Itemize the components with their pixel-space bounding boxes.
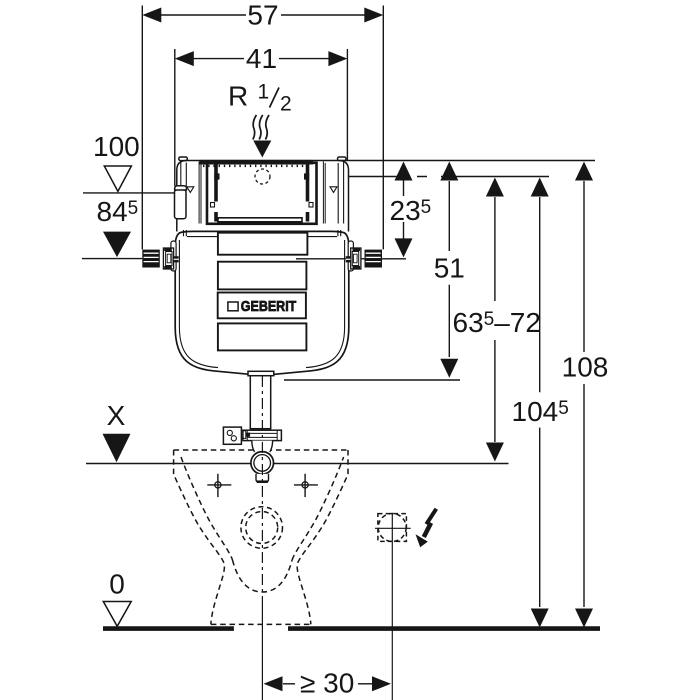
- dimension 108 top arrow: [575, 162, 593, 181]
- dimension >=30 arrow right: [372, 676, 391, 691]
- tank side plate right: [348, 241, 353, 271]
- dimension >=30 arrow left: [264, 676, 283, 691]
- flush elbow inner circle: [254, 455, 271, 472]
- electrical box dashed square: [378, 514, 407, 542]
- filling valve housing: [175, 190, 187, 219]
- water supply wavy hose symbol: [253, 115, 257, 140]
- electrical box cross line: [375, 527, 411, 529]
- frame tab top-left: [214, 173, 219, 179]
- wc pan inner outline left: [181, 457, 233, 560]
- tank panel 1: [218, 233, 308, 255]
- dimension 57 arrow left: [142, 8, 161, 23]
- right bracket tab top: [353, 248, 361, 251]
- level 100 leader line: [83, 192, 179, 194]
- tank panel 4: [218, 323, 307, 350]
- svg-text:41: 41: [246, 43, 277, 74]
- water level mark right: [330, 187, 337, 193]
- svg-text:GEBERIT: GEBERIT: [241, 299, 297, 315]
- dimension 104.5 top arrow: [531, 178, 549, 197]
- frame tab top-right: [304, 173, 309, 179]
- dimension 63.5-72 top arrow: [486, 178, 504, 197]
- wc pan outer outline right: [297, 450, 348, 624]
- water supply arrow: [253, 141, 271, 158]
- dimension >=30 line left: [283, 683, 295, 685]
- cistern top right screw nub: [338, 157, 347, 161]
- pan centre line: [261, 376, 263, 600]
- fixing cross right: [294, 474, 318, 497]
- level X filled triangle: [103, 434, 131, 463]
- wc pan top edge: [174, 449, 348, 451]
- tank side plate left: [171, 241, 176, 271]
- dimension 108 line: [583, 181, 585, 607]
- svg-text:0: 0: [109, 569, 125, 600]
- water connection reference line: [270, 176, 549, 178]
- dimension 57 extension line right: [382, 6, 384, 250]
- fixing cross left: [207, 474, 231, 497]
- svg-text:2: 2: [280, 93, 292, 116]
- svg-text:1: 1: [258, 81, 270, 104]
- svg-text:≥ 30: ≥ 30: [300, 668, 354, 699]
- svg-text:100: 100: [93, 131, 140, 162]
- left bracket plate: [163, 248, 173, 269]
- mounting box screws: [227, 430, 232, 435]
- dimension 63.5-72 bottom arrow: [486, 443, 504, 462]
- svg-text:108: 108: [562, 352, 609, 383]
- svg-text:X: X: [107, 400, 126, 431]
- level 84.5 filled triangle: [103, 232, 131, 258]
- flush pipe clamp: [243, 430, 282, 440]
- right bracket plate inner: [352, 252, 358, 266]
- flush pipe collar: [248, 371, 274, 375]
- flush bend cover bar: [218, 218, 302, 222]
- dimension 51 top arrow: [440, 162, 458, 181]
- right bracket knob slots: [366, 253, 381, 261]
- electrical supply centre line: [391, 513, 393, 700]
- wc pan inner bowl curve: [233, 560, 293, 592]
- bracket leader line right: [296, 258, 406, 260]
- flush pipe leader line: [284, 379, 460, 381]
- frame inner notch right: [309, 203, 313, 208]
- filling valve cap: [175, 186, 187, 190]
- dimension >=30 line right: [358, 683, 372, 685]
- dimension 41 line: [193, 58, 330, 60]
- tank panel 3: [218, 293, 306, 319]
- tank body outline: [175, 231, 349, 374]
- elbow neck: [252, 441, 273, 453]
- floor line: [103, 626, 600, 631]
- tank inner top lines: [187, 236, 337, 238]
- frame inner bar right: [306, 164, 310, 222]
- dimension 57 line: [160, 14, 366, 16]
- tank inner wall line: [179, 240, 344, 368]
- dimension 63.5-72 line: [494, 197, 496, 442]
- dimension 57 arrow right: [364, 8, 383, 23]
- left bracket tab bottom: [164, 266, 172, 269]
- water supply connection dashed circle: [255, 169, 270, 184]
- right bracket plate: [351, 248, 361, 269]
- level 84.5 leader line: [82, 258, 142, 260]
- flush pipe body: [250, 375, 270, 429]
- left bracket plate inner: [166, 252, 172, 266]
- dimension 51 line: [448, 181, 450, 357]
- dimension 108 bottom arrow: [575, 609, 593, 628]
- svg-text:635–72: 635–72: [453, 307, 541, 338]
- wc pan outer outline left: [174, 450, 225, 624]
- right bracket bolt: [346, 256, 351, 262]
- frame inner notch left: [211, 203, 215, 208]
- lightning bolt: [426, 509, 436, 524]
- right bracket knob: [365, 250, 383, 268]
- frame support lines right: [323, 162, 325, 224]
- wc pan outlet outer dashed circle: [241, 507, 283, 549]
- cistern top box outer: [177, 161, 349, 232]
- top reference line (top of cistern): [340, 160, 595, 162]
- protection box top bar: [200, 160, 314, 165]
- svg-text:51: 51: [434, 253, 465, 284]
- dimension 51 bottom arrow: [440, 359, 458, 378]
- protection box frame: [207, 163, 317, 224]
- water level mark left: [187, 187, 194, 193]
- dimension 23.5 line: [403, 180, 405, 240]
- level 100 open triangle: [104, 166, 131, 191]
- left bracket knob slots: [144, 253, 159, 261]
- cistern wall double lines left: [199, 162, 201, 224]
- svg-text:R: R: [228, 81, 248, 112]
- dimension 41 extension line left: [174, 49, 176, 186]
- left bracket bolt: [174, 256, 179, 262]
- right bracket tab bottom: [353, 266, 361, 269]
- cistern top left screw nub: [179, 157, 188, 161]
- left bracket tab top: [164, 248, 172, 251]
- level 0 open triangle: [103, 602, 131, 627]
- tank panel 2: [218, 262, 307, 290]
- left bracket knob: [142, 250, 160, 268]
- filling valve inlet tube: [181, 163, 187, 187]
- geberit logo square: [228, 302, 238, 311]
- dimension 41 arrow left: [175, 51, 194, 66]
- dimension 23.5 top arrow: [395, 162, 413, 181]
- cistern wall double lines right: [338, 162, 343, 224]
- elbow foot base: [257, 480, 268, 483]
- wc pan outlet inner dashed circle: [246, 512, 278, 544]
- flush pipe clamp inner lines: [247, 430, 277, 440]
- geberit logo text: [241, 299, 297, 315]
- dimension 104.5 line: [539, 197, 541, 607]
- wc pan base bottom: [211, 623, 311, 625]
- protection box tick marks: [203, 165, 310, 167]
- wc pan inner outline right: [292, 457, 344, 560]
- frame inner bar left: [214, 164, 218, 222]
- box lower flange legs: [184, 230, 341, 236]
- dimension 57 extension line left: [141, 6, 143, 250]
- mounting box connector: [242, 431, 246, 439]
- dimension 23.5 bottom arrow: [395, 238, 413, 257]
- svg-text:57: 57: [247, 0, 278, 31]
- level X line: [86, 463, 509, 465]
- mounting box left of pipe: [223, 427, 241, 444]
- dimension 41 arrow right: [328, 51, 347, 66]
- electrical box dashed circle: [378, 514, 406, 542]
- dimension 104.5 bottom arrow: [531, 609, 549, 628]
- flush elbow outer circle: [251, 452, 274, 475]
- dimension 41 extension line right: [346, 49, 348, 161]
- elbow foot: [256, 474, 269, 482]
